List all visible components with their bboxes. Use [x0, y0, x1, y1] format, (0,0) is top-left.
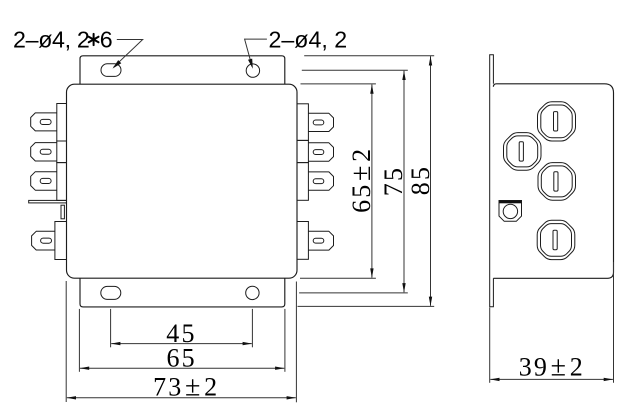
leader to round hole — [245, 39, 267, 67]
side view mounting plate — [490, 55, 494, 307]
dim 65+-2 line — [371, 85, 373, 278]
bottom flange round hole — [246, 286, 259, 299]
right spade terminal 4 — [308, 231, 333, 250]
dim 75 extension lines — [302, 69, 408, 71]
dim 75 line — [403, 71, 405, 292]
svg-text:39±2: 39±2 — [519, 352, 585, 383]
right spade terminal 3 — [308, 172, 333, 190]
side view body outline — [493, 84, 613, 278]
leader to slotted hole — [114, 40, 143, 68]
left spade terminal 4 — [32, 231, 55, 250]
top mounting flange — [80, 56, 285, 84]
dim 73+-2 line — [67, 397, 296, 399]
right terminal base block 3 — [297, 163, 308, 201]
dim 39+-2 line — [490, 378, 613, 380]
dim 85 extension lines — [304, 55, 434, 57]
left terminal base block 2 — [57, 141, 67, 163]
right terminal base block 1 — [297, 104, 308, 141]
dim 45 extension lines — [110, 309, 112, 347]
svg-text:65±2: 65±2 — [346, 147, 377, 213]
dim 45 line — [111, 343, 252, 345]
top flange round hole D4 — [246, 64, 259, 77]
svg-text:73±2: 73±2 — [153, 371, 219, 402]
svg-text:6: 6 — [100, 27, 113, 53]
svg-text:2–ø4, 2: 2–ø4, 2 — [13, 27, 90, 53]
dim 65 bottom line — [80, 367, 284, 369]
left terminal base block 1 — [57, 104, 67, 142]
filter body (front view) — [67, 84, 298, 278]
bottom flange slotted hole — [101, 286, 121, 299]
right terminal base block 2 — [297, 140, 308, 162]
left terminal base block 4 — [55, 222, 67, 260]
terminal end L1 (side view) — [538, 102, 576, 141]
svg-text:85: 85 — [406, 165, 435, 195]
dim 65+-2 extension lines — [301, 83, 376, 85]
left spade terminal 2 — [31, 143, 57, 161]
terminal end R (side view) — [504, 133, 542, 171]
right terminal base block 4 — [297, 222, 308, 260]
ground lug holder — [61, 205, 64, 219]
right spade terminal 2 — [308, 143, 333, 161]
svg-text:75: 75 — [379, 166, 408, 196]
terminal end L3 (side view) — [537, 220, 575, 259]
top flange slotted hole 2*6 — [101, 64, 121, 77]
dim 65 bottom extension lines — [78, 309, 80, 372]
terminal end L2 (side view) — [538, 163, 576, 201]
left terminal base block 3 — [57, 163, 67, 201]
dim 85 line — [430, 56, 432, 305]
ground terminal (side view) — [499, 201, 522, 222]
bottom mounting flange — [80, 278, 285, 307]
right spade terminal 1 — [308, 113, 333, 131]
ground lug plate (edge view) — [29, 200, 67, 203]
svg-text:65: 65 — [166, 344, 196, 373]
left spade terminal 1 — [31, 113, 57, 131]
svg-text:2–ø4, 2: 2–ø4, 2 — [269, 27, 348, 53]
left spade terminal 3 — [31, 172, 57, 191]
dim 39+-2 extension lines — [489, 308, 491, 383]
dim 73+-2 extension lines — [65, 281, 67, 402]
